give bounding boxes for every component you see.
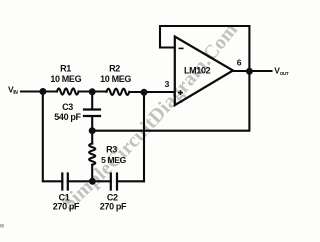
- svg-text:6: 6: [237, 58, 242, 68]
- svg-text:10 MEG: 10 MEG: [100, 74, 131, 84]
- svg-text:540 pF: 540 pF: [54, 112, 81, 122]
- svg-text:270 pF: 270 pF: [100, 202, 127, 212]
- svg-text:R1: R1: [60, 64, 71, 74]
- svg-text:OUT: OUT: [280, 71, 289, 76]
- svg-text:10 MEG: 10 MEG: [50, 74, 81, 84]
- svg-text:C3: C3: [62, 102, 73, 112]
- svg-text:R2: R2: [109, 64, 120, 74]
- svg-text:IN: IN: [13, 90, 18, 96]
